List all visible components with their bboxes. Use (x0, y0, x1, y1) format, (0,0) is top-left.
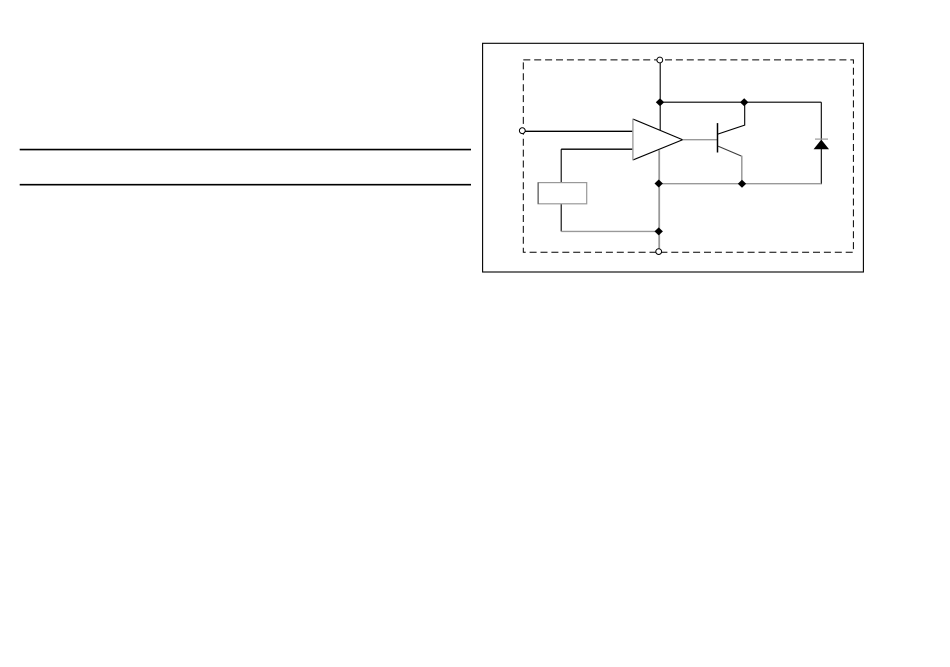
wire: right vertical lower (diode anode down) (820, 149, 822, 184)
junction node: output rail / emitter (738, 180, 746, 188)
page rule upper (20, 149, 471, 151)
op-amp buffer A1 (633, 119, 683, 161)
wire: bottom horizontal (emitter/output rail) (659, 183, 822, 185)
wire: top vertical (V+ rail into buffer) (659, 63, 661, 130)
terminal: input pin (519, 128, 525, 134)
wire: feedback lead into buffer (561, 148, 632, 150)
figure frame (483, 43, 864, 272)
terminal: top pin (657, 57, 663, 63)
wire: buffer output to transistor base (683, 139, 718, 141)
wire: top horizontal rail (660, 101, 822, 103)
page rule lower (20, 184, 471, 186)
wire: mid vertical (buffer bottom to bottom terminal) (658, 150, 660, 249)
wire: resistor return horizontal (561, 230, 658, 232)
resistor R1 (538, 183, 587, 204)
junction node: rail / buffer supply (656, 98, 664, 106)
wire: vertical out of resistor R1 (560, 204, 562, 232)
IC boundary (dashed) (523, 60, 853, 252)
terminal: bottom pin (656, 249, 662, 255)
diode D1 (814, 139, 828, 149)
junction node: output rail left (655, 180, 663, 188)
junction node: rail / collector (740, 98, 748, 106)
wire: input lead (525, 130, 632, 132)
wire: vertical into resistor R1 (560, 149, 562, 182)
junction node: resistor return (655, 227, 663, 235)
transistor Q1 (718, 103, 745, 184)
wire: right vertical upper (rail to diode cathode) (820, 102, 822, 140)
